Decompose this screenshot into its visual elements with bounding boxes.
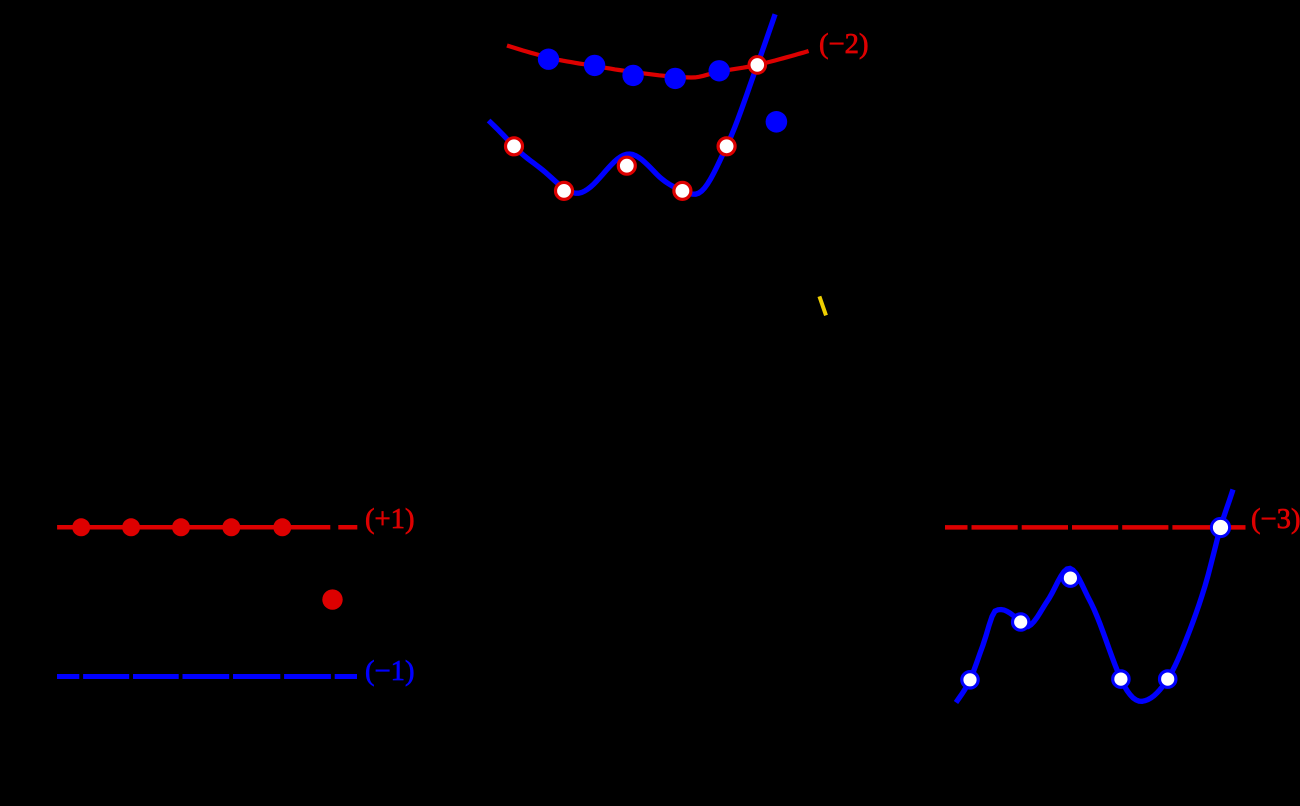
red filled dot 1 <box>72 518 90 536</box>
svg-text:(−3): (−3) <box>1251 504 1300 535</box>
white dot with red ring at crossing (top plot) <box>749 57 766 74</box>
red filled dot 3 <box>172 518 190 536</box>
white dot with blue ring 4 <box>1113 671 1129 687</box>
svg-text:(+1): (+1) <box>365 504 414 535</box>
red horizontal line (+1 level) <box>57 525 330 530</box>
white dot with red ring 4 (blue curve) <box>674 182 691 199</box>
white dot with red ring 1 (blue curve) <box>506 138 523 155</box>
blue filled dot 4 on red curve <box>665 68 686 89</box>
white dot with red ring 2 (blue curve) <box>556 182 573 199</box>
white dot with blue ring 5 <box>1160 671 1176 687</box>
red curve (top plot) <box>507 46 809 78</box>
white dot with blue ring 1 <box>962 672 978 688</box>
white dot with blue ring 2 <box>1013 614 1029 630</box>
isolated red filled dot <box>322 589 342 609</box>
blue filled dot 2 on red curve <box>584 55 605 76</box>
red filled dot 2 <box>122 518 140 536</box>
red filled dot 5 <box>273 518 291 536</box>
blue curve (bottom right plot) <box>956 490 1233 703</box>
white dot with red ring 5 (blue curve) <box>718 138 735 155</box>
red line end dash <box>338 525 357 530</box>
blue wavy curve (top plot) <box>489 14 775 194</box>
red horizontal dashed line (-3 level) <box>945 525 1246 530</box>
yellow tick <box>819 296 826 315</box>
blue filled dot 1 on red curve <box>538 49 559 70</box>
white dot with blue ring 3 <box>1062 570 1078 586</box>
red filled dot 4 <box>222 518 240 536</box>
blue horizontal dashed line (-1 level) <box>57 674 357 679</box>
blue filled dot 3 on red curve <box>622 65 643 86</box>
isolated blue filled dot (top plot) <box>766 111 788 133</box>
svg-text:(−1): (−1) <box>365 656 414 687</box>
blue filled dot 5 on red curve <box>709 60 730 81</box>
white dot with blue ring at crossing <box>1211 518 1229 536</box>
white dot with red ring 3 (blue curve) <box>618 157 635 174</box>
svg-text:(−2): (−2) <box>819 29 868 60</box>
